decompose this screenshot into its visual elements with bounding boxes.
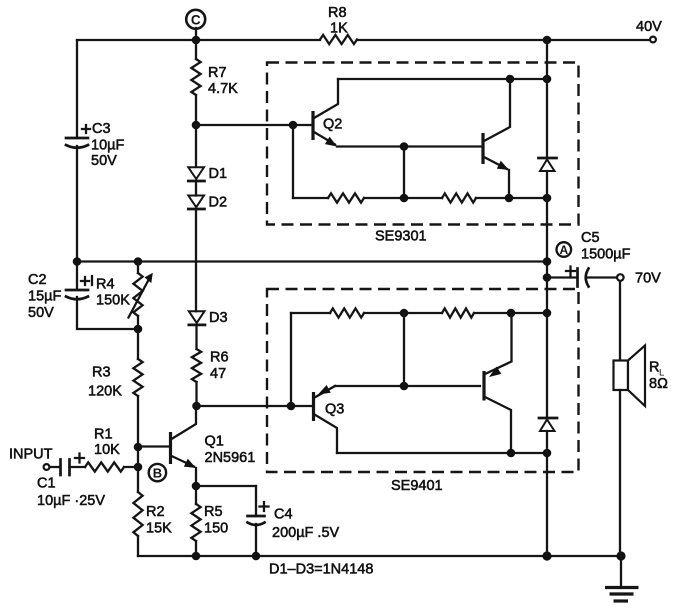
wire speaker to bottom rail <box>619 390 621 556</box>
junction output rail at A <box>543 257 552 266</box>
resistor R7 <box>191 59 238 97</box>
resistor R1 <box>85 427 124 472</box>
svg-text:R5: R5 <box>204 504 223 520</box>
wire x547 lower <box>546 431 548 556</box>
svg-text:R8: R8 <box>328 5 347 21</box>
svg-text:Q1: Q1 <box>205 434 224 450</box>
resistor R6 <box>192 349 229 382</box>
svg-text:C5: C5 <box>581 230 600 246</box>
junction R7 bottom <box>192 121 201 130</box>
junction top rail right <box>543 309 552 318</box>
junction R4 top <box>134 257 143 266</box>
junction Q1 collector node <box>192 402 201 411</box>
junction bottom rail tap <box>400 194 409 203</box>
svg-text:INPUT: INPUT <box>9 447 53 463</box>
svg-text:R2: R2 <box>146 504 165 520</box>
svg-text:D3: D3 <box>209 310 228 326</box>
terminal 40V <box>636 19 662 42</box>
junction T2 emitter bottom <box>505 194 514 203</box>
svg-text:Q2: Q2 <box>323 117 342 133</box>
svg-text:B: B <box>153 466 162 481</box>
svg-text:1500µF: 1500µF <box>581 247 631 263</box>
junction bottom rail right <box>543 449 552 458</box>
wire base feed Q2 <box>196 124 313 126</box>
svg-text:C4: C4 <box>274 507 293 523</box>
wire bottom rail <box>138 555 621 557</box>
svg-text:D1: D1 <box>209 166 228 182</box>
ground <box>605 588 639 602</box>
speaker RL <box>614 346 669 407</box>
node junction top of x547 drop <box>543 36 552 45</box>
wire SE9401 top rail <box>291 312 330 314</box>
resistor R2 <box>133 492 172 537</box>
wire SE9301 left drop <box>292 125 294 198</box>
wire D1-D2 <box>195 181 197 196</box>
wire D2 to D3 (crosses output rail, no junction) <box>195 209 197 311</box>
wire ground stub <box>620 556 622 587</box>
wire tap riser <box>403 313 405 386</box>
junction SE9301 input <box>289 121 298 130</box>
svg-text:10K: 10K <box>94 442 120 458</box>
wire emitter to R5 <box>195 486 197 504</box>
junction C5 tap <box>543 273 552 282</box>
transistor T2 (SE9301 output) <box>483 79 510 198</box>
svg-text:C3: C3 <box>92 121 111 137</box>
node C <box>186 10 205 40</box>
capacitor C3 <box>66 121 124 169</box>
junction Q3 base tap <box>287 402 296 411</box>
wire R1 to base node <box>124 466 138 468</box>
capacitor C4 <box>248 486 340 556</box>
junction C4 bottom <box>252 552 261 561</box>
svg-text:R6: R6 <box>210 350 229 366</box>
junction Q1 emitter node <box>192 482 201 491</box>
capacitor C1 <box>37 454 105 510</box>
junction T4 collector bottom <box>507 449 516 458</box>
box SE9401 <box>267 289 579 472</box>
svg-text:15K: 15K <box>146 521 172 537</box>
wire left rail upper <box>76 40 78 138</box>
resistor R3 <box>88 359 143 400</box>
capacitor C5 <box>547 230 631 287</box>
resistor SE9301 left <box>328 193 364 202</box>
wire R4 top stub <box>137 262 139 274</box>
svg-text:47: 47 <box>210 366 226 382</box>
svg-text:40V: 40V <box>636 19 662 35</box>
junction T2 collector top <box>506 75 515 84</box>
wire SE9401 bottom rail <box>337 452 547 454</box>
wire resistor string x196 <box>195 40 197 59</box>
wire C1 to R1 <box>70 466 86 468</box>
diode D2 <box>188 195 227 211</box>
svg-text:SE9301: SE9301 <box>375 229 427 245</box>
wire D3 to R6 <box>195 325 197 349</box>
wire R4 bottom to R3 <box>137 316 139 359</box>
wire R3 to R2 <box>137 396 139 492</box>
node junction at C <box>192 36 201 45</box>
wire R7 to D1 <box>195 95 197 167</box>
junction Q1 base tap <box>134 443 143 452</box>
node B <box>149 464 166 481</box>
wire top rail left <box>77 39 320 41</box>
svg-text:50V: 50V <box>91 153 117 169</box>
box SE9301 <box>267 63 579 225</box>
wire x547 upper <box>546 40 548 158</box>
svg-text:R1: R1 <box>94 427 113 443</box>
junction R5 bottom <box>192 552 201 561</box>
junction bottom rail right <box>543 194 552 203</box>
wire output rail y261.5 <box>77 260 547 262</box>
svg-text:Q3: Q3 <box>325 402 344 418</box>
junction top rail right <box>543 75 552 84</box>
svg-text:15µF: 15µF <box>28 289 61 305</box>
junction diode string bottom <box>542 551 551 560</box>
svg-text:D1–D3=1N4148: D1–D3=1N4148 <box>269 562 373 578</box>
svg-text:R4: R4 <box>96 277 115 293</box>
svg-text:C2: C2 <box>28 272 47 288</box>
wire 70V drop to speaker <box>619 282 621 362</box>
resistor R8 <box>320 5 357 44</box>
svg-text:10µF ·25V: 10µF ·25V <box>37 493 105 509</box>
wire SE9401 left drop <box>290 313 292 406</box>
wire <box>476 197 547 199</box>
wire SE9301 top rail <box>338 78 547 80</box>
wire Q1 base <box>138 445 170 447</box>
diode SE9401 (catch) <box>539 418 557 431</box>
diode D1 <box>188 166 227 182</box>
svg-text:1K: 1K <box>330 21 348 37</box>
svg-text:SE9401: SE9401 <box>391 478 443 494</box>
transistor T4 (SE9401 output) <box>484 313 512 453</box>
wire tap drop <box>403 147 405 199</box>
junction left rail / output rail <box>73 257 82 266</box>
resistor SE9301 right <box>442 193 476 202</box>
wire <box>364 197 442 199</box>
wire x547 below diode <box>546 171 548 418</box>
svg-text:150K: 150K <box>96 293 130 309</box>
wire <box>364 312 442 314</box>
terminal 70V <box>617 271 661 287</box>
junction R1 tap <box>134 463 143 472</box>
junction R4 bottom <box>134 325 143 334</box>
capacitor C2 <box>28 272 92 321</box>
svg-text:70V: 70V <box>635 271 661 287</box>
resistor SE9401 right <box>442 308 474 317</box>
wire <box>474 312 547 314</box>
svg-text:R: R <box>649 360 659 376</box>
wire Q3 emitter rail <box>335 385 480 387</box>
resistor SE9401 left <box>330 308 364 317</box>
svg-text:C1: C1 <box>37 476 56 492</box>
svg-text:120K: 120K <box>88 384 122 400</box>
wire R2 to bottom rail <box>137 536 139 556</box>
svg-text:A: A <box>559 243 568 257</box>
resistor R5 <box>191 504 228 541</box>
svg-text:2N5961: 2N5961 <box>205 450 256 466</box>
junction speaker/ground <box>616 551 625 560</box>
svg-text:10µF: 10µF <box>91 138 124 154</box>
wire Q3 base feed <box>197 405 314 407</box>
transistor Q2 <box>313 79 342 147</box>
diode SE9301 (catch) <box>539 158 557 171</box>
junction emitter rail tap <box>400 382 409 391</box>
wire Q2 emitter rail <box>337 145 482 147</box>
junction emitter rail tap <box>400 142 409 151</box>
svg-text:200µF .5V: 200µF .5V <box>272 525 340 541</box>
wire C2 bottom to R4/R3 junction <box>77 297 138 329</box>
node A <box>557 242 572 257</box>
transistor Q3 <box>314 385 345 453</box>
svg-text:50V: 50V <box>28 305 54 321</box>
diode D3 <box>189 310 228 326</box>
svg-text:150: 150 <box>204 521 228 537</box>
wire SE9301 bottom rail <box>293 197 328 199</box>
transistor Q1 <box>171 406 256 486</box>
svg-text:D2: D2 <box>209 195 228 211</box>
svg-text:R7: R7 <box>208 65 227 81</box>
resistor R4 (variable) <box>96 273 153 318</box>
wire R5 to bottom rail <box>195 541 197 556</box>
wire top rail right <box>357 39 649 41</box>
svg-text:8Ω: 8Ω <box>649 376 668 392</box>
INPUT terminal <box>9 447 53 470</box>
svg-text:R3: R3 <box>92 365 111 381</box>
svg-text:4.7K: 4.7K <box>208 81 238 97</box>
junction top rail tap <box>400 309 409 318</box>
junction T4 emitter top <box>507 309 516 318</box>
wire emitter to C4 <box>196 485 256 487</box>
svg-text:C: C <box>191 12 201 27</box>
wire R6 to node <box>195 382 197 406</box>
wire left rail middle <box>76 146 78 290</box>
